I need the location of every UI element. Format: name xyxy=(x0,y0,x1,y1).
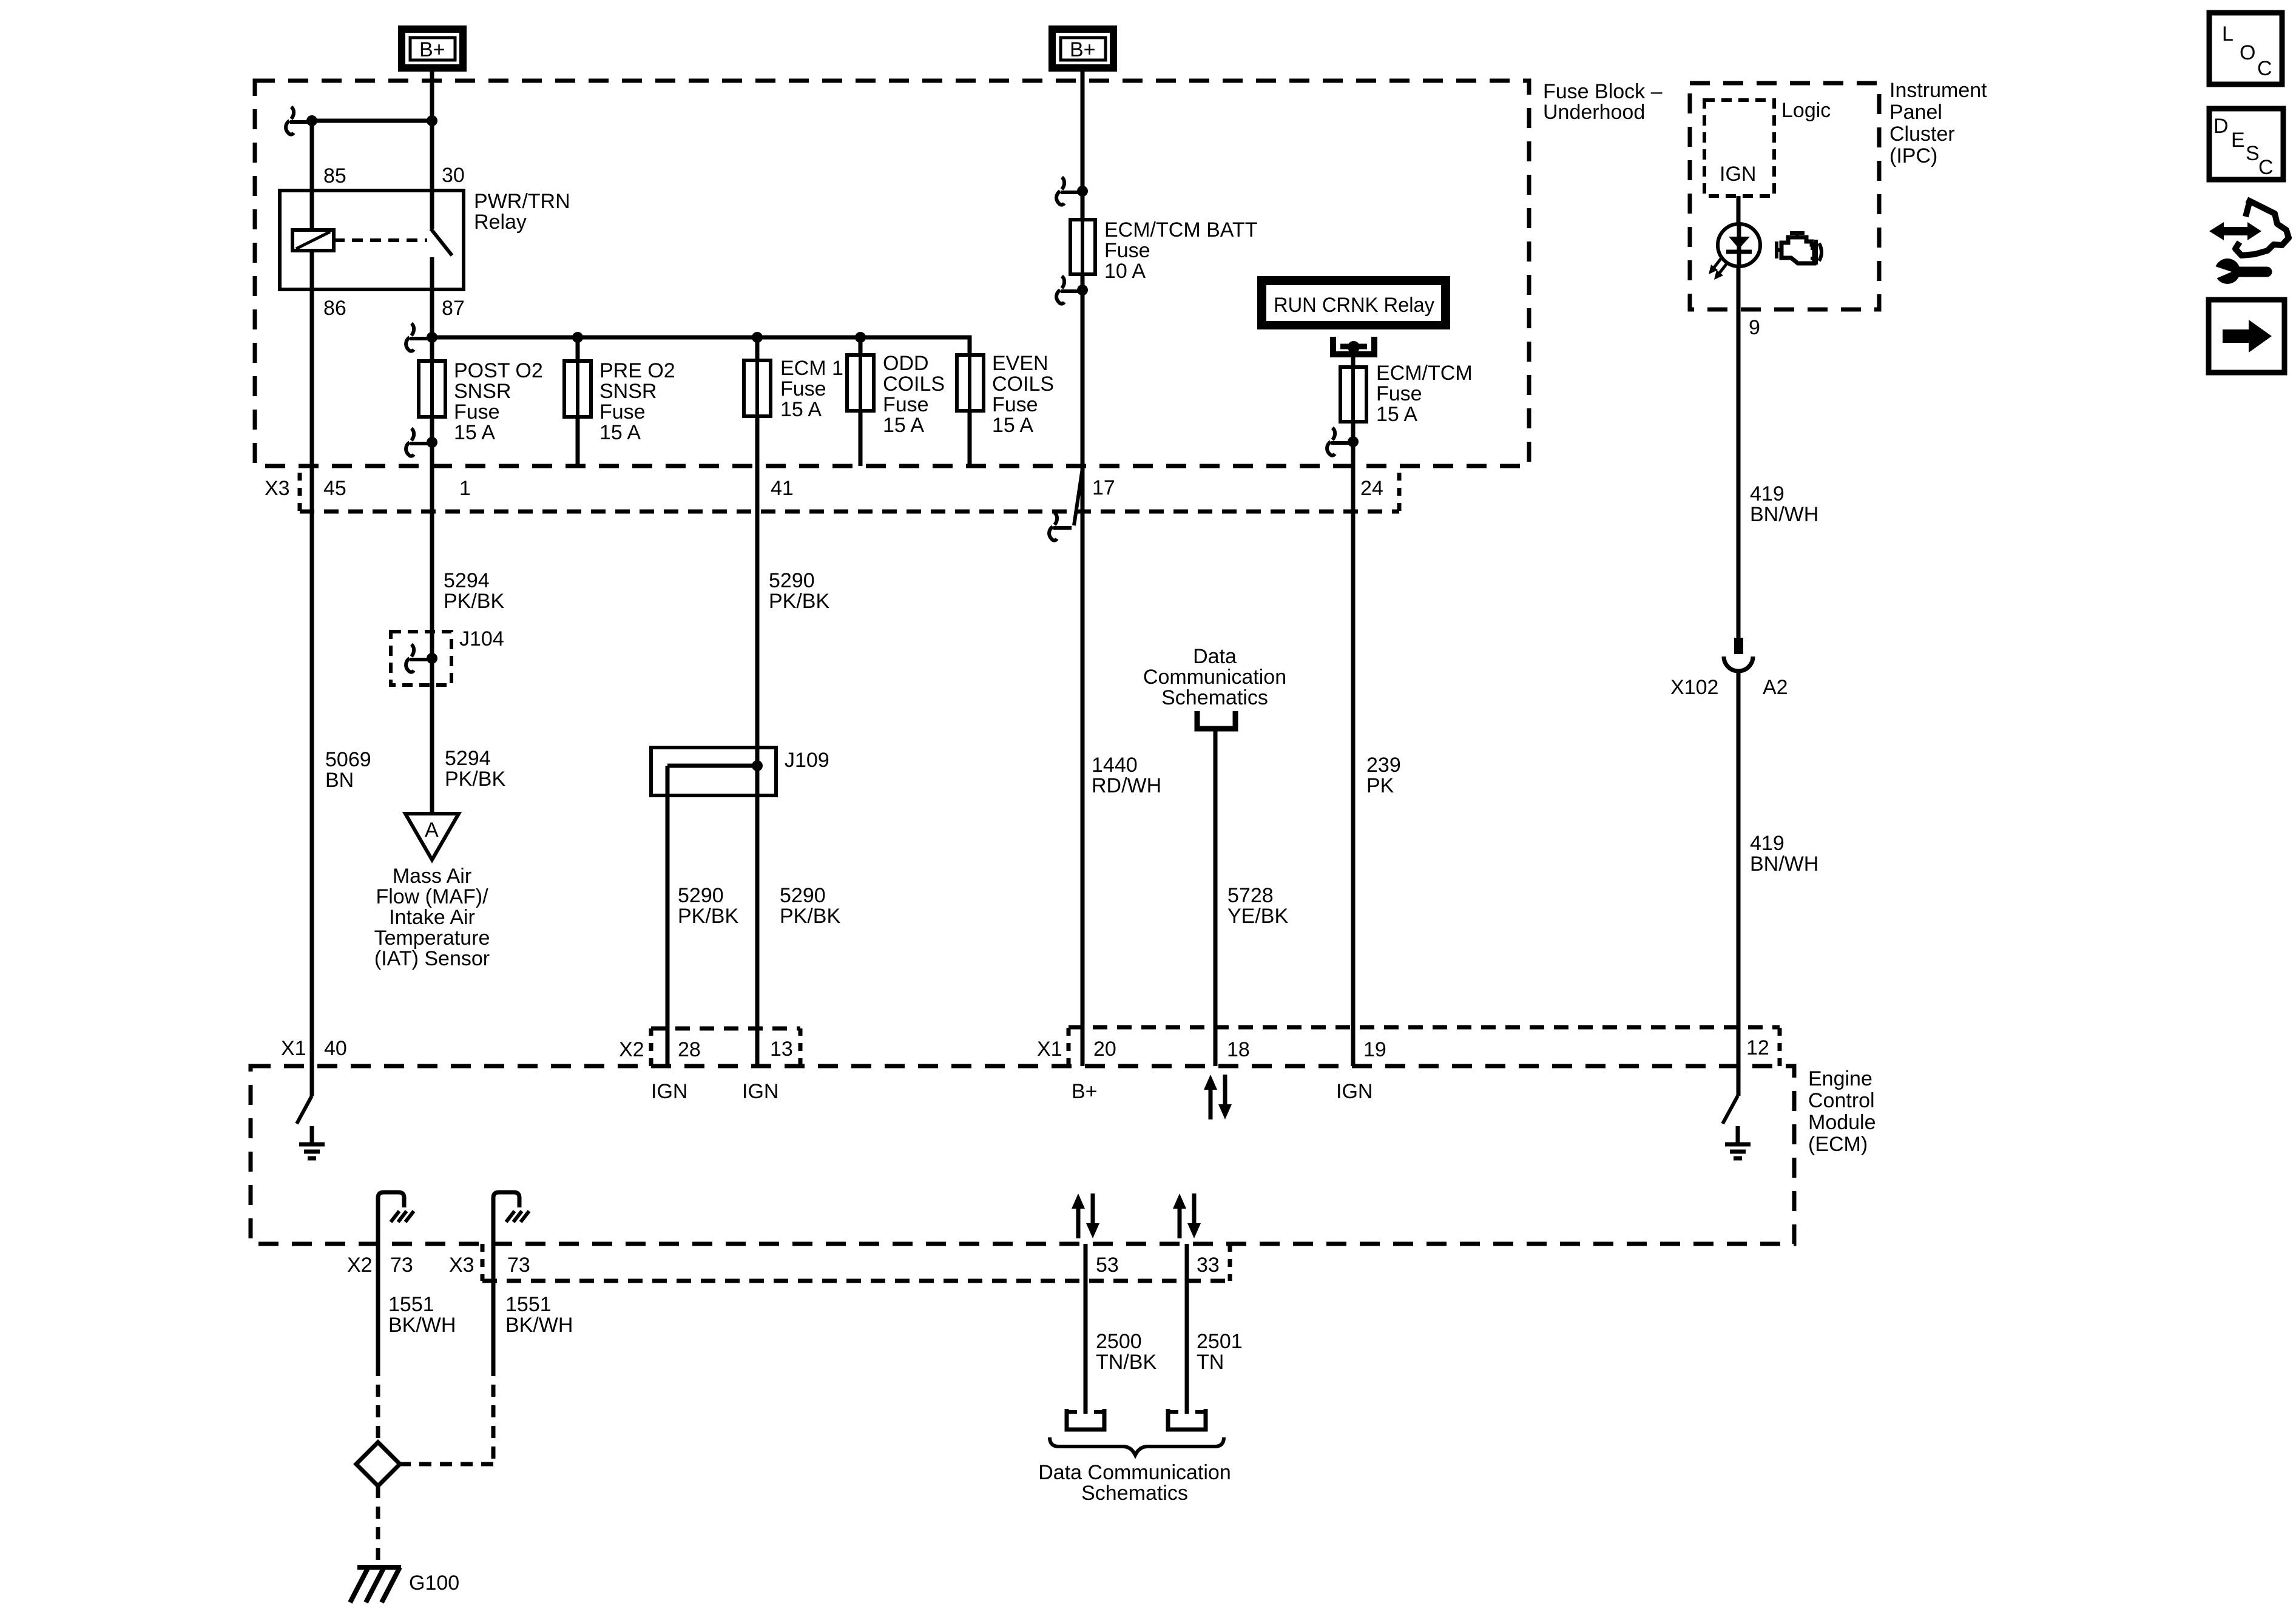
connector X2 dotted indicator (pins 28 13) xyxy=(651,1028,800,1066)
label ODD COILS fuse xyxy=(883,352,945,437)
wire label 5294 PK/BK lower xyxy=(445,747,505,791)
wire pin 86 to pin 45 xyxy=(310,289,314,1066)
wire label 2501 TN xyxy=(1197,1330,1243,1374)
splice diamond xyxy=(356,1442,400,1486)
svg-text:IGN: IGN xyxy=(1720,163,1756,186)
curly brace xyxy=(1050,1437,1224,1455)
Logic dashed box xyxy=(1704,100,1774,196)
wire label 419 BN/WH upper xyxy=(1750,482,1818,526)
hand with double arrow icon xyxy=(2209,200,2289,255)
svg-text:A2: A2 xyxy=(1763,676,1788,699)
connector separator after pin 24 xyxy=(1397,473,1402,511)
svg-text:53: 53 xyxy=(1096,1254,1119,1277)
svg-text:40: 40 xyxy=(324,1037,347,1060)
label EVEN COILS fuse xyxy=(992,352,1054,437)
svg-text:Data Communication: Data Communication xyxy=(1038,1461,1231,1484)
svg-text:5290: 5290 xyxy=(780,884,826,907)
label MAF/IAT sensor xyxy=(374,865,490,970)
svg-text:X2: X2 xyxy=(347,1254,373,1277)
svg-text:TN/BK: TN/BK xyxy=(1096,1351,1156,1374)
svg-text:1551: 1551 xyxy=(388,1293,434,1316)
svg-text:239: 239 xyxy=(1366,754,1401,777)
check engine icon xyxy=(1777,233,1822,265)
svg-text:BN/WH: BN/WH xyxy=(1750,852,1818,876)
svg-text:5294: 5294 xyxy=(444,569,490,592)
svg-text:Fuse Block –: Fuse Block – xyxy=(1543,80,1663,103)
svg-text:41: 41 xyxy=(771,477,794,500)
svg-text:73: 73 xyxy=(507,1254,530,1277)
splice J104 dashed box xyxy=(391,632,451,685)
terminal cup pin 53 xyxy=(1067,1409,1104,1430)
clip lead below ECM/TCM fuse xyxy=(1327,428,1349,456)
svg-text:PWR/TRN: PWR/TRN xyxy=(474,190,570,213)
svg-text:15 A: 15 A xyxy=(883,414,924,437)
svg-text:BK/WH: BK/WH xyxy=(388,1314,456,1337)
svg-text:Fuse: Fuse xyxy=(599,400,646,424)
label Data Communication Schematics (upper) xyxy=(1143,645,1286,709)
svg-text:ODD: ODD xyxy=(883,352,929,375)
svg-text:Flow (MAF)/: Flow (MAF)/ xyxy=(376,885,488,908)
svg-text:85: 85 xyxy=(323,164,346,187)
serial data arrows pair 2 bottom xyxy=(1173,1193,1201,1238)
svg-text:ECM/TCM BATT: ECM/TCM BATT xyxy=(1104,218,1257,241)
wire pin 1 to MAF sensor xyxy=(430,466,434,814)
node below ECM/TCM fuse xyxy=(1348,436,1359,447)
svg-text:Schematics: Schematics xyxy=(1161,686,1268,709)
wire label 1440 RD/WH xyxy=(1092,754,1161,797)
svg-text:D: D xyxy=(2213,115,2229,138)
DESC icon box xyxy=(2209,109,2283,180)
wire PRE O2 fuse column xyxy=(576,337,580,466)
label POST O2 SNSR fuse xyxy=(454,359,543,444)
wire label 5069 BN xyxy=(325,748,371,792)
internal ground hook X3-73 xyxy=(493,1192,529,1244)
fuse ECM/TCM 15A xyxy=(1340,367,1366,422)
wire ground X2-73 xyxy=(376,1244,380,1364)
svg-text:33: 33 xyxy=(1197,1254,1220,1277)
svg-text:2501: 2501 xyxy=(1197,1330,1243,1353)
next page arrow icon box xyxy=(2209,300,2284,373)
node junction at 85 branch xyxy=(306,115,317,126)
LOC icon box xyxy=(2209,13,2282,84)
svg-text:Schematics: Schematics xyxy=(1081,1482,1188,1505)
svg-text:X2: X2 xyxy=(619,1038,644,1061)
svg-text:Fuse: Fuse xyxy=(883,393,929,416)
node bus at ODD COILS xyxy=(855,332,866,343)
svg-text:Fuse: Fuse xyxy=(1104,239,1150,262)
svg-text:19: 19 xyxy=(1363,1038,1386,1061)
wire pin 87 stub xyxy=(430,257,434,289)
wire label 5290 PK/BK left xyxy=(678,884,738,928)
svg-text:E: E xyxy=(2231,129,2245,152)
wire indicator to pin 9 xyxy=(1737,266,1741,638)
svg-text:30: 30 xyxy=(442,164,465,187)
MAF sensor terminal triangle A xyxy=(405,814,459,860)
connector X3 separator xyxy=(298,473,302,511)
svg-text:RUN CRNK Relay: RUN CRNK Relay xyxy=(1274,294,1434,317)
wire coil pin 85 inside relay xyxy=(310,191,314,289)
svg-text:1440: 1440 xyxy=(1092,754,1138,777)
svg-text:X3: X3 xyxy=(265,477,290,500)
svg-text:IGN: IGN xyxy=(742,1080,778,1103)
relay coil xyxy=(292,230,334,251)
power symbol B+ (left) xyxy=(398,25,467,72)
svg-text:A: A xyxy=(425,819,439,842)
svg-text:5069: 5069 xyxy=(325,748,371,771)
wire horizontal to relay pin 85 xyxy=(312,119,432,123)
svg-text:Communication: Communication xyxy=(1143,666,1286,689)
wrench icon xyxy=(2206,258,2267,284)
svg-text:20: 20 xyxy=(1093,1038,1116,1061)
wire inside J109 xyxy=(667,764,757,768)
svg-text:12: 12 xyxy=(1746,1036,1769,1059)
clip lead above ECM/TCM BATT fuse xyxy=(1056,177,1079,205)
svg-text:Mass Air: Mass Air xyxy=(393,865,471,888)
wire J109 left branch to pin 28 xyxy=(666,766,670,1066)
fuse ODD COILS 15A xyxy=(847,355,874,411)
node above ECM/TCM BATT fuse xyxy=(1077,186,1088,197)
svg-text:ECM/TCM: ECM/TCM xyxy=(1376,362,1473,385)
fuse PRE O2 SNSR 15A xyxy=(564,361,591,417)
svg-text:Intake Air: Intake Air xyxy=(389,906,475,929)
wire ODD COILS fuse column xyxy=(859,337,863,466)
connector lead jog at pin 17 xyxy=(1049,468,1082,541)
wire label 5290 PK/BK upper xyxy=(769,569,829,613)
svg-text:24: 24 xyxy=(1360,477,1383,500)
wire RUN CRNK to ECM pin 19 xyxy=(1351,347,1356,1066)
svg-text:9: 9 xyxy=(1749,316,1760,339)
svg-text:BN: BN xyxy=(325,769,354,792)
serial data arrows under pin 18 xyxy=(1204,1075,1232,1119)
connector X1 dotted indicator (pins 20 18 19 12) xyxy=(1069,1027,1780,1066)
connector X3 bottom separator xyxy=(481,1244,485,1281)
wire pin 85 xyxy=(310,121,314,191)
svg-text:S: S xyxy=(2246,142,2260,165)
node bus at ECM 1 xyxy=(752,332,763,343)
svg-text:PK/BK: PK/BK xyxy=(445,768,505,791)
relay PWR/TRN box xyxy=(280,191,464,289)
wire ground X3-73 dashed xyxy=(400,1364,493,1464)
wire ECM 1 fuse column to pin 13 xyxy=(755,337,760,1066)
wire pin 30 xyxy=(430,121,434,191)
svg-text:2500: 2500 xyxy=(1096,1330,1142,1353)
ground G100 symbol xyxy=(350,1567,401,1602)
svg-text:X102: X102 xyxy=(1670,676,1718,699)
Fuse Block - Underhood dashed box xyxy=(255,81,1529,466)
label Data Communication Schematics (bottom) xyxy=(1038,1461,1231,1505)
svg-text:COILS: COILS xyxy=(883,373,945,396)
fuse ECM 1 15A xyxy=(744,360,771,416)
svg-text:15 A: 15 A xyxy=(454,421,495,444)
node below ECM/TCM BATT fuse xyxy=(1077,285,1088,295)
wire DCS to ECM pin 18 xyxy=(1214,730,1218,1066)
node junction at 30 branch xyxy=(427,115,437,126)
svg-text:PK: PK xyxy=(1366,774,1394,797)
node inside J104 xyxy=(427,653,437,664)
svg-text:Cluster: Cluster xyxy=(1889,123,1955,146)
wire label 2500 TN/BK xyxy=(1096,1330,1156,1374)
clip lead below POST O2 fuse xyxy=(406,428,428,456)
relay RUN CRNK label box xyxy=(1257,276,1450,329)
svg-text:17: 17 xyxy=(1092,476,1115,499)
svg-text:B+: B+ xyxy=(1070,38,1096,61)
svg-text:TN: TN xyxy=(1197,1351,1224,1374)
svg-text:13: 13 xyxy=(770,1038,793,1061)
svg-text:X1: X1 xyxy=(281,1037,306,1060)
svg-text:X1: X1 xyxy=(1037,1038,1062,1061)
label ECM 1 fuse xyxy=(780,357,843,421)
svg-text:SNSR: SNSR xyxy=(599,380,657,403)
node bus at POST O2 xyxy=(427,332,437,343)
wire POST O2 fuse column xyxy=(430,337,434,466)
wire pin 87 down to fuse bus xyxy=(430,289,434,337)
svg-text:1: 1 xyxy=(459,477,471,500)
connector dotted row line bottom xyxy=(482,1279,1230,1283)
Instrument Panel Cluster dashed box xyxy=(1690,83,1879,309)
wire logic to indicator xyxy=(1737,196,1741,224)
data link terminal cup xyxy=(1197,711,1235,729)
wire ground X3-73 xyxy=(491,1244,496,1364)
relay switch blade xyxy=(431,229,452,255)
serial data arrows pair 1 bottom xyxy=(1072,1193,1099,1238)
label PRE O2 SNSR fuse xyxy=(599,359,675,444)
svg-text:86: 86 xyxy=(323,297,346,320)
svg-text:15 A: 15 A xyxy=(992,414,1033,437)
svg-text:10 A: 10 A xyxy=(1104,260,1146,283)
relay contact bracket xyxy=(1333,337,1374,354)
wire diamond to G100 dashed xyxy=(376,1486,380,1565)
svg-text:18: 18 xyxy=(1227,1038,1250,1061)
relay actuation dashed link xyxy=(334,238,427,242)
svg-text:BK/WH: BK/WH xyxy=(505,1314,573,1337)
internal ground hook X2-73 xyxy=(378,1192,414,1244)
svg-text:IGN: IGN xyxy=(651,1080,687,1103)
relay PWR/TRN label xyxy=(474,190,570,234)
svg-text:(IAT) Sensor: (IAT) Sensor xyxy=(374,947,490,970)
svg-text:Temperature: Temperature xyxy=(374,927,490,950)
svg-text:Instrument: Instrument xyxy=(1889,79,1987,102)
clip lead inside J104 xyxy=(406,644,428,672)
svg-text:Underhood: Underhood xyxy=(1543,101,1645,124)
svg-text:PK/BK: PK/BK xyxy=(444,590,504,613)
fuse bus wire xyxy=(432,337,970,355)
ground switch at pin 12 xyxy=(1723,1066,1751,1158)
svg-text:PRE O2: PRE O2 xyxy=(599,359,675,382)
wire ground X2-73 dashed xyxy=(376,1364,380,1442)
clip lead at 85 branch xyxy=(286,107,308,135)
svg-text:45: 45 xyxy=(323,477,346,500)
label Fuse Block Underhood xyxy=(1543,80,1663,124)
node inside J109 xyxy=(752,760,763,771)
connector separator after pin 33 xyxy=(1228,1244,1232,1281)
fuse ECM/TCM BATT 10A xyxy=(1070,220,1095,274)
svg-text:POST O2: POST O2 xyxy=(454,359,543,382)
svg-text:C: C xyxy=(2258,156,2274,179)
fuse EVEN COILS 15A xyxy=(957,355,984,411)
Engine Control Module dashed box xyxy=(251,1066,1794,1244)
svg-text:Data: Data xyxy=(1193,645,1237,668)
svg-text:PK/BK: PK/BK xyxy=(769,590,829,613)
svg-text:COILS: COILS xyxy=(992,373,1054,396)
svg-text:PK/BK: PK/BK xyxy=(678,905,738,928)
wire pin 30 inside relay xyxy=(430,191,434,229)
indicator LED symbol xyxy=(1709,224,1760,280)
svg-text:5728: 5728 xyxy=(1227,884,1274,907)
svg-text:BN/WH: BN/WH xyxy=(1750,503,1818,526)
svg-text:73: 73 xyxy=(390,1254,413,1277)
label Instrument Panel Cluster xyxy=(1889,79,1987,167)
wire EVEN COILS below fuse xyxy=(968,411,972,466)
node below POST O2 fuse xyxy=(427,437,437,448)
wire label 239 PK xyxy=(1366,754,1401,797)
svg-text:(ECM): (ECM) xyxy=(1808,1133,1868,1156)
svg-text:EVEN: EVEN xyxy=(992,352,1048,375)
svg-text:PK/BK: PK/BK xyxy=(780,905,840,928)
svg-text:RD/WH: RD/WH xyxy=(1092,774,1161,797)
svg-text:15 A: 15 A xyxy=(599,421,641,444)
svg-text:O: O xyxy=(2240,41,2255,64)
label ECM/TCM fuse xyxy=(1376,362,1473,426)
svg-text:5294: 5294 xyxy=(445,747,491,770)
svg-text:15 A: 15 A xyxy=(1376,403,1417,426)
svg-text:X3: X3 xyxy=(449,1254,474,1277)
svg-text:87: 87 xyxy=(442,297,465,320)
fuse POST O2 SNSR 15A xyxy=(419,361,445,417)
svg-text:(IPC): (IPC) xyxy=(1889,144,1937,167)
label Engine Control Module xyxy=(1808,1067,1876,1156)
svg-text:ECM 1: ECM 1 xyxy=(780,357,843,380)
svg-text:Fuse: Fuse xyxy=(992,393,1038,416)
wire B+ middle column xyxy=(1081,72,1085,1066)
wire label 419 BN/WH lower xyxy=(1750,832,1818,876)
inline connector X102 A2 xyxy=(1724,638,1753,671)
terminal cup pin 33 xyxy=(1168,1409,1206,1430)
svg-text:15 A: 15 A xyxy=(780,398,822,421)
svg-text:Module: Module xyxy=(1808,1111,1876,1134)
wire pin 53 xyxy=(1084,1244,1088,1414)
clip lead below ECM/TCM BATT fuse xyxy=(1056,276,1079,304)
wire label 5290 PK/BK right xyxy=(780,884,840,928)
svg-text:1551: 1551 xyxy=(505,1293,552,1316)
connector dotted row line xyxy=(300,510,1399,514)
svg-text:419: 419 xyxy=(1750,832,1784,855)
label ECM/TCM BATT fuse xyxy=(1104,218,1257,283)
wire B+ to relay pin 30 xyxy=(430,72,434,121)
wire label 1551 BK/WH left xyxy=(388,1293,456,1337)
svg-text:Fuse: Fuse xyxy=(1376,382,1422,405)
wire pin 33 xyxy=(1185,1244,1189,1414)
svg-text:5290: 5290 xyxy=(769,569,815,592)
svg-text:Engine: Engine xyxy=(1808,1067,1872,1090)
wire label 5728 YE/BK xyxy=(1227,884,1288,928)
power symbol B+ (middle) xyxy=(1048,25,1117,72)
svg-text:5290: 5290 xyxy=(678,884,724,907)
svg-text:28: 28 xyxy=(678,1038,701,1061)
node bus at PRE O2 xyxy=(572,332,583,343)
svg-text:YE/BK: YE/BK xyxy=(1227,905,1288,928)
svg-text:Fuse: Fuse xyxy=(780,377,826,400)
ground switch at pin 40 xyxy=(297,1066,325,1158)
svg-text:G100: G100 xyxy=(409,1571,459,1595)
svg-text:J109: J109 xyxy=(785,749,829,772)
svg-text:Relay: Relay xyxy=(474,211,527,234)
svg-text:Panel: Panel xyxy=(1889,101,1942,124)
wire label 5294 PK/BK upper xyxy=(444,569,504,613)
svg-text:J104: J104 xyxy=(459,627,504,650)
svg-text:B+: B+ xyxy=(419,38,445,61)
wire label 1551 BK/WH right xyxy=(505,1293,573,1337)
svg-text:419: 419 xyxy=(1750,482,1784,505)
svg-text:B+: B+ xyxy=(1072,1080,1098,1103)
splice J109 box xyxy=(651,748,776,795)
clip lead at bus start xyxy=(406,323,428,351)
svg-text:Logic: Logic xyxy=(1781,99,1831,122)
svg-text:L: L xyxy=(2222,22,2234,46)
svg-text:IGN: IGN xyxy=(1336,1080,1373,1103)
svg-text:SNSR: SNSR xyxy=(454,380,511,403)
wire X102 to ECM pin 12 xyxy=(1737,671,1741,1066)
svg-text:Fuse: Fuse xyxy=(454,400,500,424)
svg-text:Control: Control xyxy=(1808,1089,1875,1112)
svg-text:C: C xyxy=(2257,57,2272,80)
